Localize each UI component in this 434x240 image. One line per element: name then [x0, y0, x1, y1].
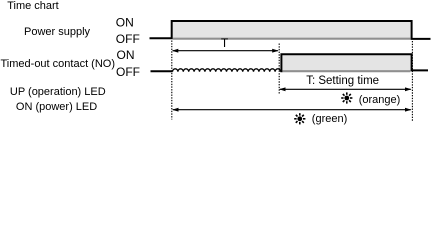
svg-text:OFF: OFF: [116, 65, 140, 79]
svg-text:(orange): (orange): [359, 94, 401, 106]
svg-text:(green): (green): [312, 113, 347, 125]
svg-text:Timed-out contact (NO): Timed-out contact (NO): [1, 58, 116, 70]
svg-text:ON: ON: [117, 48, 135, 62]
svg-text:ON: ON: [116, 16, 134, 30]
svg-text:UP (operation) LED: UP (operation) LED: [10, 86, 106, 98]
svg-text:Time chart: Time chart: [7, 0, 59, 12]
svg-text:Power supply: Power supply: [24, 26, 91, 38]
svg-text:T: T: [221, 36, 229, 50]
svg-text:OFF: OFF: [116, 32, 140, 46]
svg-text:T: Setting time: T: Setting time: [306, 75, 379, 87]
svg-text:ON (power) LED: ON (power) LED: [16, 101, 97, 113]
